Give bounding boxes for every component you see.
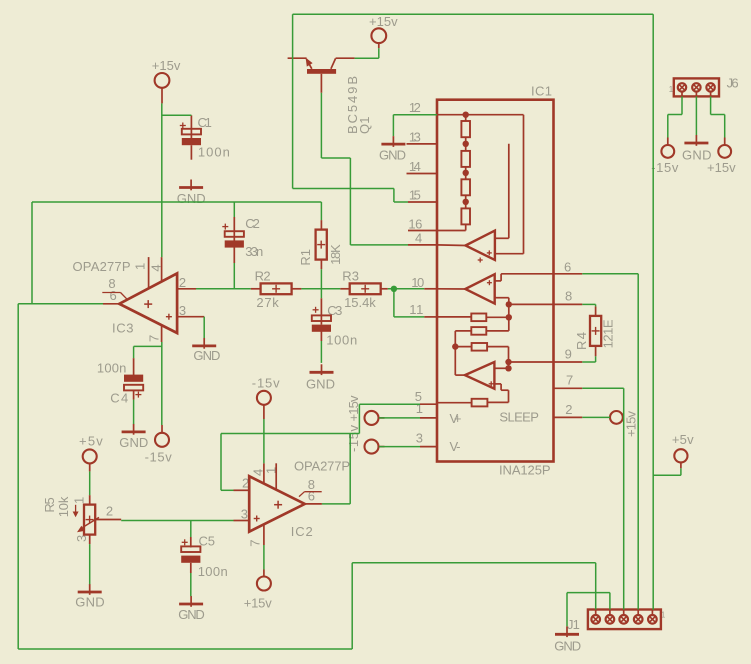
svg-text:IC2: IC2 (291, 524, 313, 539)
svg-text:C4: C4 (110, 391, 128, 406)
svg-text:+5v: +5v (79, 434, 103, 449)
svg-text:15: 15 (409, 187, 421, 202)
svg-text:C1: C1 (198, 115, 212, 130)
svg-text:2: 2 (565, 402, 572, 417)
svg-text:100n: 100n (97, 360, 127, 375)
svg-text:2: 2 (179, 275, 186, 290)
svg-text:3: 3 (179, 303, 186, 318)
svg-text:V+: V+ (450, 411, 462, 426)
svg-text:+15v: +15v (152, 58, 181, 73)
svg-text:10k: 10k (56, 496, 71, 517)
svg-text:R3: R3 (342, 269, 359, 284)
svg-text:1: 1 (416, 401, 423, 416)
svg-text:6: 6 (564, 259, 571, 274)
svg-text:8: 8 (565, 289, 572, 304)
svg-text:C2: C2 (245, 216, 260, 231)
svg-text:IC1: IC1 (531, 84, 552, 99)
svg-text:J6: J6 (727, 75, 739, 90)
svg-text:4: 4 (415, 231, 422, 246)
svg-text:3: 3 (74, 535, 89, 542)
svg-text:2: 2 (106, 503, 113, 518)
svg-text:R4: R4 (574, 332, 589, 350)
svg-text:Q1: Q1 (357, 117, 372, 135)
svg-text:14: 14 (409, 159, 421, 174)
svg-text:R5: R5 (42, 497, 57, 512)
svg-text:7: 7 (147, 335, 162, 342)
svg-text:INA125P: INA125P (499, 462, 551, 477)
svg-text:9: 9 (565, 347, 572, 362)
svg-text:GND: GND (193, 348, 220, 363)
svg-text:OPA277P: OPA277P (73, 259, 131, 274)
svg-text:J1: J1 (567, 617, 580, 632)
svg-text:GND: GND (177, 191, 206, 206)
svg-text:16: 16 (408, 216, 422, 231)
svg-text:GND: GND (75, 595, 104, 610)
svg-text:R2: R2 (255, 269, 271, 284)
svg-text:7: 7 (566, 373, 573, 388)
svg-text:27k: 27k (256, 295, 279, 310)
svg-text:10: 10 (411, 275, 424, 290)
svg-text:100n: 100n (326, 333, 357, 348)
svg-text:6: 6 (308, 489, 315, 504)
svg-text:-15v: -15v (651, 160, 679, 175)
svg-text:GND: GND (554, 639, 581, 654)
svg-text:GND: GND (306, 376, 335, 391)
svg-text:V-: V- (450, 439, 461, 454)
svg-text:6: 6 (110, 288, 117, 303)
svg-text:3: 3 (416, 430, 423, 445)
svg-text:1: 1 (133, 263, 148, 270)
svg-text:33n: 33n (245, 244, 263, 259)
svg-text:IC3: IC3 (112, 320, 134, 335)
svg-text:GND: GND (178, 607, 205, 622)
svg-text:100n: 100n (198, 564, 228, 579)
svg-text:-15v: -15v (252, 376, 280, 391)
svg-text:7: 7 (247, 539, 262, 546)
svg-text:18K: 18K (328, 244, 343, 265)
svg-text:OPA277P: OPA277P (294, 459, 350, 474)
svg-text:13: 13 (409, 129, 421, 144)
svg-text:GND: GND (379, 148, 406, 163)
svg-text:100n: 100n (198, 145, 230, 160)
svg-text:+15v: +15v (623, 411, 638, 438)
svg-text:R1: R1 (298, 249, 313, 266)
svg-text:+15v: +15v (707, 160, 736, 175)
svg-text:12: 12 (409, 100, 421, 115)
svg-text:GND: GND (119, 435, 148, 450)
svg-text:+15v: +15v (369, 14, 398, 29)
svg-text:121E: 121E (601, 319, 616, 348)
svg-text:-15v: -15v (145, 449, 173, 464)
svg-text:15.4k: 15.4k (344, 295, 376, 310)
svg-text:11: 11 (409, 302, 423, 317)
svg-text:3: 3 (241, 506, 248, 521)
svg-text:SLEEP: SLEEP (499, 409, 539, 424)
svg-text:+5v: +5v (672, 432, 694, 447)
svg-text:+15v: +15v (244, 596, 273, 611)
svg-text:1: 1 (71, 497, 86, 504)
